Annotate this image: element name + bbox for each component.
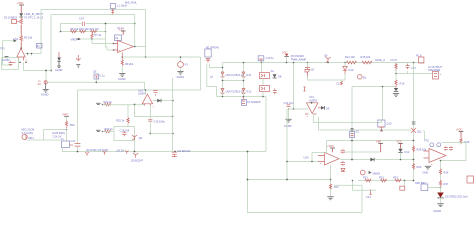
- svg-text:DGND: DGND: [434, 209, 442, 213]
- feedback box U4: [442, 143, 467, 161]
- svg-text:C17: C17: [71, 139, 76, 143]
- opto transistor right bottom: [242, 89, 252, 94]
- opto U5: [260, 63, 274, 79]
- resistor R32: [379, 176, 387, 182]
- svg-text:R31: R31: [363, 176, 368, 180]
- svg-text:R5 10k: R5 10k: [70, 27, 79, 31]
- svg-text:Q2 2N39: Q2 2N39: [86, 148, 97, 152]
- wire opto down: [262, 92, 264, 97]
- wire second bus: [51, 14, 135, 16]
- svg-text:GND: GND: [423, 171, 429, 175]
- svg-text:9.7mV/Pa: 9.7mV/Pa: [22, 131, 34, 135]
- svg-text:+VDC: +VDC: [456, 127, 463, 131]
- op-amp U2: [113, 41, 134, 53]
- resistor R18 col top: [390, 58, 433, 74]
- svg-text:R36: R36: [444, 170, 449, 174]
- wire top supply: [25, 54, 41, 56]
- op-amp U4: [424, 149, 447, 167]
- wire U3 minus in: [287, 161, 318, 163]
- wire U3 feedback loop: [312, 152, 327, 161]
- resistor R24: [105, 127, 114, 133]
- ground I1: [41, 84, 49, 97]
- svg-text:R30: R30: [417, 165, 422, 169]
- caps in box: [444, 146, 453, 151]
- label box U2: [115, 35, 122, 41]
- svg-text:U6A TLP521-G: U6A TLP521-G: [226, 90, 244, 94]
- diode series output: [370, 158, 374, 162]
- svg-text:R37: R37: [444, 182, 449, 186]
- svg-text:R21 1M: R21 1M: [90, 27, 99, 31]
- wire comp input vertical: [293, 63, 295, 110]
- wire comparator input: [289, 108, 309, 110]
- transistor Q11: [411, 122, 422, 133]
- svg-text:C9: C9: [336, 82, 340, 86]
- microphone MIC1: [22, 134, 34, 140]
- transistor Q6 on bus: [324, 54, 331, 64]
- capacitor C24: [79, 16, 85, 26]
- svg-text:J2 OUTPUT: J2 OUTPUT: [428, 65, 443, 69]
- svg-text:AGND: AGND: [284, 124, 292, 128]
- wire: [92, 39, 117, 44]
- svg-text:AGND: AGND: [177, 75, 185, 79]
- wire bus audio: [63, 148, 267, 152]
- svg-text:VBIAS: VBIAS: [373, 171, 381, 175]
- connector right: [467, 176, 474, 183]
- opto diode U5 left bottom: [221, 89, 243, 94]
- cap U1A top: [153, 91, 158, 96]
- node rail left: [222, 67, 224, 69]
- svg-text:VCC: VCC: [397, 140, 403, 144]
- resistor R34: [352, 180, 405, 191]
- power flag led: [397, 140, 403, 149]
- wire drop to box: [200, 57, 202, 90]
- node resistor row ends: [60, 31, 62, 33]
- node cap row: [105, 23, 107, 25]
- svg-text:M2 IRFZ44: M2 IRFZ44: [178, 149, 192, 153]
- resistor R28: [412, 146, 426, 153]
- node fb column: [286, 179, 288, 181]
- BLOCKS ADDED BELOW: [0, 1, 146, 97]
- comp inside box: [9, 61, 13, 66]
- svg-text:C18 104: C18 104: [120, 128, 130, 132]
- svg-text:U5A TLP521-G: U5A TLP521-G: [226, 73, 244, 77]
- svg-text:R15 10k: R15 10k: [361, 55, 371, 59]
- bias chain below U3: [329, 165, 339, 197]
- svg-text:R14 10k: R14 10k: [345, 55, 355, 59]
- node U2 out: [134, 46, 136, 48]
- gnd flag row1: [96, 103, 103, 105]
- svg-text:+VDC: +VDC: [17, 1, 24, 5]
- op-amp U1A: [139, 94, 155, 108]
- diode out D9: [318, 106, 330, 111]
- node opamp in: [134, 104, 136, 106]
- node U3 out: [351, 159, 353, 161]
- node bias row: [404, 180, 406, 182]
- series cap C17: [71, 139, 81, 146]
- svg-text:AGND: AGND: [2, 58, 10, 62]
- wire cap to flag: [345, 151, 381, 153]
- wire I1 stub: [45, 71, 47, 81]
- svg-text:C21: C21: [366, 195, 371, 199]
- svg-text:+VDC: +VDC: [327, 144, 334, 148]
- wire right vert: [413, 63, 415, 181]
- cap C3: [76, 55, 80, 67]
- svg-text:R2 10k: R2 10k: [24, 36, 33, 40]
- wire mic lower: [27, 139, 61, 141]
- wire feedback lower: [135, 105, 173, 117]
- svg-text:R25 1k: R25 1k: [116, 119, 125, 123]
- wire comparator out: [313, 114, 315, 123]
- svg-text:D10: D10: [349, 68, 354, 72]
- node bottom rail: [222, 96, 224, 98]
- bias resistor row: [358, 180, 414, 182]
- svg-text:MID_RAIL: MID_RAIL: [125, 1, 138, 5]
- op-amp U1: [15, 48, 28, 62]
- feedback box: [114, 127, 135, 141]
- svg-text:X1 SCREW: X1 SCREW: [247, 100, 261, 104]
- svg-text:G2: G2: [356, 130, 360, 134]
- svg-text:2A: 2A: [271, 69, 274, 73]
- vbias flag: [360, 170, 380, 175]
- wire pwm bus: [223, 62, 425, 64]
- node: [113, 43, 115, 45]
- node loop taps: [247, 151, 249, 153]
- resistor R25: [116, 105, 129, 127]
- inductor L1: [111, 4, 127, 15]
- svg-text:-: -: [320, 156, 321, 159]
- wire Q10 drain: [382, 87, 384, 120]
- transistor Q8: [132, 135, 143, 152]
- node mid bus: [145, 56, 147, 58]
- gnd flag row2: [96, 130, 103, 132]
- diode D10: [343, 62, 354, 80]
- svg-text:R24 1k: R24 1k: [105, 127, 114, 131]
- resistor R2: [20, 35, 33, 42]
- node Q10 drain: [382, 86, 384, 88]
- node box bus: [77, 151, 79, 153]
- resistor R37: [439, 175, 448, 187]
- resistor R29: [412, 163, 421, 170]
- net label box: [37, 44, 43, 49]
- node R7: [91, 38, 93, 40]
- power flag VEE: [376, 140, 383, 153]
- resistor R7: [91, 33, 102, 39]
- wire U3 feed: [326, 141, 328, 153]
- resistor R23: [104, 100, 113, 106]
- svg-text:Q7: Q7: [311, 67, 315, 71]
- svg-text:R16 10k: R16 10k: [79, 27, 89, 31]
- svg-text:R9 2k2: R9 2k2: [125, 62, 134, 66]
- opto U6: [260, 79, 270, 92]
- svg-text:U3A: U3A: [304, 156, 309, 160]
- ground col: [393, 94, 399, 97]
- svg-text:AC: AC: [38, 82, 42, 86]
- node feedback: [172, 116, 174, 118]
- cap C18: [120, 128, 130, 136]
- svg-text:C24: C24: [79, 16, 84, 20]
- svg-text:Q11: Q11: [417, 129, 422, 133]
- svg-text:AGND: AGND: [41, 93, 49, 97]
- wire into U4: [423, 131, 425, 140]
- wire source row: [47, 82, 144, 90]
- resistor R33: [393, 176, 401, 182]
- svg-text:VREF: VREF: [71, 37, 78, 41]
- resistor R9: [121, 57, 134, 66]
- svg-text:VOUT: VOUT: [390, 58, 398, 62]
- input pads: [424, 138, 441, 146]
- resistor R35: [460, 138, 470, 145]
- box feedback net: [78, 90, 201, 152]
- node supply taps: [27, 53, 29, 55]
- wire cap row: [61, 23, 135, 25]
- wire: [106, 24, 114, 51]
- cap C12: [273, 89, 277, 95]
- right rail: [243, 63, 245, 97]
- wire vert x145 into cluster: [145, 90, 147, 94]
- svg-text:VCC: VCC: [282, 50, 288, 54]
- svg-text:V3: V3: [185, 62, 189, 66]
- ground R9: [118, 66, 126, 81]
- cap C14 to ground: [284, 101, 294, 128]
- svg-text:R32: R32: [379, 176, 384, 180]
- wire vertical left: [50, 15, 52, 71]
- svg-text:B1: B1: [363, 75, 367, 79]
- wire feedback vertical: [134, 15, 136, 47]
- comparator U7: [305, 95, 318, 118]
- output connector J2: [428, 65, 443, 79]
- resistor R14: [345, 55, 356, 64]
- svg-text:Q10: Q10: [387, 121, 392, 125]
- power flag U4: [456, 127, 464, 137]
- fuse F1 loop: [12, 20, 20, 24]
- svg-text:MK1: MK1: [29, 136, 35, 140]
- svg-text:R22: R22: [70, 123, 75, 127]
- ground flag: [2, 57, 10, 63]
- wire mid bus: [122, 56, 200, 58]
- svg-text:R19: R19: [400, 82, 405, 86]
- svg-text:D8: D8: [278, 75, 282, 79]
- small comp: [304, 87, 306, 91]
- svg-text:GATE_A: GATE_A: [375, 58, 385, 62]
- label near J1: [53, 131, 66, 138]
- svg-text:LM393: LM393: [309, 98, 317, 102]
- wire: [20, 42, 22, 49]
- middle rail wire: [223, 80, 244, 82]
- svg-text:R23 1k: R23 1k: [104, 100, 113, 104]
- svg-text:0.1u: 0.1u: [100, 74, 106, 78]
- opto diode U5 left top: [221, 72, 243, 77]
- parallel cap C15: [396, 63, 416, 74]
- resistor R19: [395, 73, 405, 88]
- wire op-amp U2 out: [134, 46, 146, 48]
- connector SPK2: [415, 181, 441, 191]
- node cluster feed: [145, 89, 147, 91]
- wire: [60, 24, 62, 32]
- snubber R17: [336, 81, 343, 86]
- op-amp pins: [13, 62, 27, 64]
- diode D8: [273, 74, 282, 78]
- svg-text:-: -: [424, 152, 425, 155]
- cap C19 below: [148, 106, 174, 135]
- node mid rail: [222, 80, 224, 82]
- resistor R5: [70, 27, 79, 33]
- node: [20, 47, 22, 49]
- wire mic upper: [44, 130, 67, 141]
- svg-text:D12: D12: [405, 150, 410, 154]
- svg-text:-: -: [139, 106, 140, 109]
- transistor M1 top: [205, 45, 220, 62]
- annotation box: [2, 58, 19, 70]
- svg-text:AGND: AGND: [118, 77, 126, 81]
- wire: [20, 25, 22, 35]
- power flag mic: [62, 113, 69, 121]
- diode D2: [19, 13, 23, 17]
- resistor R22: [65, 121, 75, 142]
- wire U3 out: [339, 158, 414, 161]
- svg-text:+ -: + -: [431, 164, 434, 167]
- svg-text:R12: R12: [247, 90, 252, 94]
- node: [50, 70, 52, 72]
- wire: [80, 38, 106, 40]
- zener D3: [55, 52, 63, 72]
- mosfet M2: [172, 149, 191, 156]
- connector X1: [242, 97, 262, 106]
- svg-text:Q4 2N: Q4 2N: [117, 148, 125, 152]
- svg-text:LINE_IN_PROT: LINE_IN_PROT: [25, 12, 44, 16]
- resistor R31: [363, 176, 371, 182]
- wire gate drive A: [314, 122, 378, 124]
- resistor R1: [20, 17, 23, 26]
- wire gate drive B: [319, 117, 412, 130]
- svg-text:TP1: TP1: [0, 47, 5, 51]
- svg-text:D13 RED LED 2mA: D13 RED LED 2mA: [445, 195, 468, 199]
- svg-text:C19 100p: C19 100p: [154, 120, 166, 124]
- small comp lower: [366, 190, 372, 199]
- power flag U2: [119, 27, 126, 35]
- load comp: [413, 53, 424, 63]
- net flag AGND: [71, 37, 80, 41]
- resistor R21: [90, 27, 99, 33]
- wire resistor row: [61, 31, 106, 33]
- svg-text:IN: IN: [37, 44, 40, 48]
- power flag +VDC: [17, 1, 25, 13]
- node rail right: [243, 62, 245, 64]
- wire mosfet drain: [172, 78, 174, 152]
- svg-text:R35: R35: [465, 140, 470, 144]
- power flag Q5: [282, 50, 304, 63]
- wire: [24, 70, 52, 72]
- net flag TP: [3, 37, 19, 65]
- power flag U3: [327, 144, 335, 153]
- svg-text:PWM_RAMP: PWM_RAMP: [291, 58, 307, 62]
- source V3: [178, 56, 189, 67]
- wire vertical input: [40, 10, 42, 54]
- svg-text:R7 1k: R7 1k: [95, 33, 102, 37]
- ground U3 chain: [327, 197, 333, 200]
- wire op-amp out: [23, 62, 25, 70]
- svg-text:R27: R27: [334, 185, 339, 189]
- svg-text:C6: C6: [93, 69, 97, 73]
- output chain R36: [439, 160, 448, 175]
- svg-text:D2 1N5822: D2 1N5822: [4, 16, 18, 20]
- svg-text:-: -: [15, 59, 16, 62]
- svg-text:-: -: [119, 43, 120, 46]
- svg-text:R33: R33: [393, 176, 398, 180]
- wire M1 source pin staircase: [207, 64, 217, 97]
- transistor Q9 below bus: [131, 153, 144, 163]
- svg-text:C10 1u: C10 1u: [266, 56, 275, 60]
- diode D11: [394, 88, 398, 91]
- svg-text:L1 10uH: L1 10uH: [117, 4, 127, 8]
- node top rail: [351, 140, 353, 142]
- svg-text:- +: - +: [305, 115, 309, 118]
- cap at inverting input: [122, 53, 124, 58]
- wire top rail: [327, 140, 414, 142]
- svg-text:VEE: VEE: [376, 140, 381, 144]
- node vref: [79, 38, 81, 40]
- source B1: [358, 75, 367, 80]
- led D13: [437, 187, 468, 199]
- op-amp U3: [304, 152, 340, 165]
- svg-text:U2: U2: [115, 36, 119, 40]
- wire right vertical: [145, 10, 147, 58]
- resistor R16: [79, 27, 89, 33]
- transistors on bus: [85, 148, 129, 156]
- ground D13: [434, 198, 444, 213]
- wire opamp in: [103, 104, 145, 106]
- left rail: [222, 63, 224, 97]
- connector J1: [61, 137, 73, 147]
- svg-text:Q8: Q8: [139, 136, 143, 140]
- svg-text:C14 10n: C14 10n: [284, 101, 294, 105]
- resistor R15: [361, 55, 372, 64]
- svg-text:D9: D9: [326, 107, 330, 111]
- mosfet Q10: [378, 120, 392, 131]
- led D12: [398, 149, 410, 161]
- wire fb: [248, 109, 331, 180]
- ground V3: [177, 67, 185, 79]
- opto transistor right top: [242, 72, 252, 77]
- node I1: [45, 70, 47, 72]
- svg-text:Q5 2N3906: Q5 2N3906: [291, 54, 305, 58]
- buffer comp U8: [93, 69, 105, 83]
- opamp U1A labels: [138, 88, 146, 95]
- wire top bus: [41, 9, 146, 11]
- svg-text:R11: R11: [247, 73, 252, 77]
- mosfet Q7: [305, 62, 345, 80]
- svg-text:Q9 BC547: Q9 BC547: [131, 159, 144, 163]
- mic label: [22, 128, 35, 135]
- wire to box2: [103, 131, 115, 133]
- diode out U1A: [153, 99, 174, 103]
- wire snub: [352, 87, 396, 160]
- caps right of U3: [341, 149, 346, 172]
- ground U4: [423, 166, 432, 174]
- wire bottom loop: [248, 152, 363, 213]
- current source I1: [38, 79, 48, 86]
- svg-text:VMIC: VMIC: [62, 113, 69, 117]
- driver comp on rails: [350, 129, 360, 138]
- cap C10 top: [258, 56, 274, 64]
- wire M1 drain pin: [210, 64, 223, 68]
- svg-text:AGND: AGND: [55, 68, 63, 72]
- wire lower: [217, 97, 267, 152]
